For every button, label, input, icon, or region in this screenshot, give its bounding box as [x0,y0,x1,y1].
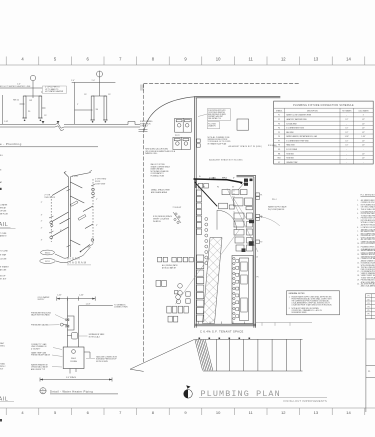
west wall fixture column lower [197,255,204,321]
dashed gas drop [233,190,235,230]
plan label left of schedule [268,145,277,147]
svg-text:1/2": 1/2" [345,145,348,147]
svg-text:R TRAP: R TRAP [0,254,7,257]
adjacent space labels [209,145,262,162]
svg-text:199 MBH: 199 MBH [70,361,78,363]
note leader [198,114,207,117]
svg-text:P2: P2 [368,299,370,301]
water supply valve note [268,206,287,211]
svg-text:OF USE: OF USE [0,211,7,213]
svg-text:P1: P1 [278,115,280,117]
svg-text:1-1/2": 1-1/2" [57,295,62,297]
svg-text:AND UNION TYP: AND UNION TYP [31,368,46,371]
ceiling line left section [0,88,66,92]
WH detail title [50,389,93,393]
svg-text:L WATER: L WATER [0,204,8,207]
svg-text:AT BUILD BAR BY: AT BUILD BAR BY [162,267,177,270]
bold gas line riser tail [195,179,197,188]
riser pipes left section [2,95,45,124]
svg-text:P2: P2 [278,119,280,121]
keyed notes title [361,194,375,196]
svg-text:GT: GT [232,187,234,189]
bar counter inner [240,258,249,321]
svg-text:1/2": 1/2" [345,140,348,142]
svg-text:C 6.4% S.F. TENANT SPACE: C 6.4% S.F. TENANT SPACE [200,329,244,333]
svg-text:1/2": 1/2" [362,158,365,160]
svg-text:HW 1/2: HW 1/2 [13,100,19,102]
accessible aisle hatch [195,340,213,371]
riser detail title [0,142,22,146]
svg-text:CONNECT: CONNECT [140,126,148,128]
svg-text:1/2: 1/2 [108,94,111,96]
dining note [162,264,178,270]
general notes box [287,291,340,315]
svg-text:12: 12 [281,410,286,415]
restroom fixture group 1 [175,118,192,132]
left edge dark mark [0,188,2,190]
svg-text:CW: CW [29,100,32,102]
svg-text:1/2": 1/2" [362,123,365,125]
svg-text:FCO: FCO [45,261,50,263]
svg-text:NG OF: NG OF [0,276,5,278]
svg-text:SUPPLY: SUPPLY [38,299,46,301]
svg-text:DESCRIPTION: DESCRIPTION [307,110,318,112]
wheel stops [199,338,251,340]
svg-text:e - Plumbing: e - Plumbing [0,142,22,146]
svg-text:TO CURB: TO CURB [0,251,8,253]
west-of-wall notes [140,121,176,178]
svg-text:HB2: HB2 [278,158,281,160]
svg-text:FINISH-OUT IMPROVEMENTS: FINISH-OUT IMPROVEMENTS [284,399,327,403]
svg-text:GRS L: GRS L [0,346,5,348]
svg-text:P4: P4 [368,307,370,309]
svg-text:FD-1 HUB: FD-1 HUB [208,123,215,125]
patio south line [256,323,312,326]
svg-text:WH-1: WH-1 [71,358,77,360]
storefront arc [144,97,196,131]
general notes item 1 [289,296,333,307]
svg-text:NOTE IN SIZE: NOTE IN SIZE [96,361,109,363]
riser diagram vent (left, dashed) [50,196,52,242]
svg-text:P4: P4 [217,187,219,189]
svg-text:ST. NOT: ST. NOT [0,279,6,281]
svg-text:1/2": 1/2" [345,132,348,134]
north symbol [184,390,193,399]
riser detail labels [0,80,111,123]
svg-text:P7: P7 [278,140,280,142]
svg-text:PRESS RELIEF VALVE: PRESS RELIEF VALVE [31,354,51,357]
svg-text:1-1/4": 1-1/4" [345,136,350,138]
svg-text:SYMBOL: SYMBOL [276,110,283,112]
svg-text:P5: P5 [257,277,259,279]
svg-text:WCO: WCO [45,253,51,255]
equipment row under gas line [198,183,247,194]
svg-text:P6: P6 [278,136,280,138]
svg-text:ADJACENT SPACE NOT IN (USE: ADJACENT SPACE NOT IN (USE) [229,145,262,148]
fixture schedule outer border [274,101,374,164]
bar stools [205,218,208,265]
small note box [207,122,219,129]
west wall fixture column upper [197,190,202,234]
svg-text:1/2": 1/2" [362,140,365,142]
riser tick fittings [67,171,93,248]
svg-text:S BE PLUMBING: S BE PLUMBING [140,121,153,123]
WH detail valves [66,319,69,328]
svg-text:11: 11 [249,57,254,62]
svg-text:1" BLD-UP: 1" BLD-UP [173,207,183,209]
svg-text:PLUMBING PLAN: PLUMBING PLAN [201,389,281,399]
leader diagonals [221,189,258,255]
svg-text:1-1/2: 1-1/2 [4,121,8,123]
bar north wall [237,175,256,177]
parking bottom line [203,370,303,372]
svg-text:P3: P3 [368,303,370,305]
riser diagram vent (right, dashed) [92,179,94,244]
riser branch lines [52,182,93,252]
svg-text:5'-0" SPACE: 5'-0" SPACE [66,376,77,379]
svg-text:P8: P8 [278,145,280,147]
floor line with break [0,123,140,130]
mini schedule right edge [366,294,375,319]
svg-text:HOSE BIB: HOSE BIB [286,153,294,155]
fixture schedule header [276,109,369,112]
dining tables row 3 [168,316,178,322]
corner mark [0,419,2,422]
tenant space label [200,329,244,333]
svg-text:13: 13 [314,410,319,415]
east wall [254,175,256,327]
svg-text:NOTE 20-A-3: NOTE 20-A-3 [89,336,100,339]
svg-text:1'-0": 1'-0" [92,80,96,82]
left edge fragments near WH detail [0,342,6,371]
svg-text:1-1/4": 1-1/4" [86,304,91,306]
svg-text:IE L: IE L [0,155,3,157]
boxed note block [207,109,230,121]
restroom label [175,135,180,137]
svg-text:P4: P4 [278,128,280,130]
dining tables row 2 [167,306,188,313]
east wall exterior fixtures [256,193,260,244]
bottom-left DETAIL title (clipped) [0,396,8,402]
svg-text:UTILITIES PRIOR TO ROUGH-IN: UTILITIES PRIOR TO ROUGH-IN [361,211,375,213]
gas terminal box [219,203,228,209]
svg-text:W/ ARCH: W/ ARCH [153,220,161,223]
riser pipe size labels [41,176,107,242]
svg-text:ME PLUM: ME PLUM [0,214,8,216]
WH detail supply risers [67,299,112,347]
title underline [199,397,327,399]
dark wall equipment [242,220,255,252]
svg-text:10: 10 [216,57,221,62]
WH detail cold water dim line [57,297,95,301]
riser bottom drain runs [55,247,91,263]
svg-text:1/2": 1/2" [362,128,365,130]
restroom fixture group 2 [173,137,190,149]
WH detail title bubble [40,388,46,394]
svg-text:1/2": 1/2" [362,132,365,134]
north wall [196,96,281,98]
svg-text:LD LINE: LD LINE [0,259,7,261]
svg-text:P7: P7 [203,187,205,189]
svg-text:1-1/4": 1-1/4" [79,295,84,297]
svg-text:GT: GT [278,162,280,164]
svg-text:HB: HB [278,153,280,155]
floor threshold bump [128,122,135,125]
gas line labels (dark) [199,176,235,179]
svg-text:IF EXISTING WTR HTR: IF EXISTING WTR HTR [208,110,226,112]
svg-text:PER CODE REQUIREMENTS: PER CODE REQUIREMENTS [361,269,375,271]
round tables [176,284,183,304]
svg-text:CONNECT HWS: CONNECT HWS [114,307,128,309]
grid bubble 1 [30,75,35,96]
bar area door diagonal [238,179,248,191]
CPVC note box [42,86,66,93]
fixture schedule rows [278,114,366,164]
svg-text:1/2": 1/2" [362,145,365,147]
expansion tank [72,333,78,340]
top ruler ticks [6,57,365,66]
svg-text:IN (CLOSET) ABOVE: IN (CLOSET) ABOVE [268,208,285,211]
curved leader to wall [260,217,280,226]
bar labels [257,256,259,279]
svg-text:1'-0": 1'-0" [17,84,21,86]
svg-text:AT: AT [0,181,2,184]
svg-text:1/2: 1/2 [84,94,87,96]
svg-text:CONT VENT: CONT VENT [95,183,106,185]
svg-text:PL 1 KEYED NOTES: PL 1 KEYED NOTES [361,194,375,196]
patio planting cluster [173,212,181,224]
floor arrows [42,121,60,124]
patio notes [151,188,182,223]
dining tables row 1 [158,257,194,262]
svg-text:P2: P2 [260,242,262,244]
svg-text:P1: P1 [260,195,262,197]
riser diagram title [67,257,87,265]
door swing arc [217,210,237,230]
svg-text:P5: P5 [368,310,370,312]
svg-text:R IN (USE): R IN (USE) [268,145,277,147]
svg-text:14: 14 [346,57,351,62]
bar back squares [236,260,239,318]
svg-text:GENERAL NOTES: GENERAL NOTES [289,292,306,295]
svg-text:HOT WATER HEATER: HOT WATER HEATER [45,90,64,93]
svg-text:10: 10 [216,410,221,415]
fixture schedule title [293,105,354,107]
riser diagram main stack [64,172,91,258]
dark equipment cluster [244,179,253,186]
drive diagonal [130,339,195,371]
svg-text:P6: P6 [368,314,370,316]
svg-text:2" VTR: 2" VTR [72,176,78,178]
bold gas diagonal [195,182,218,207]
svg-text:1'-0": 1'-0" [71,80,75,82]
svg-text:1/2": 1/2" [362,119,365,121]
south wall [195,324,256,326]
svg-text:13: 13 [314,57,319,62]
bold gas line horizontal [194,179,243,183]
svg-text:P6: P6 [28,111,30,113]
south wall ticks [199,322,245,325]
svg-text:P1.0: P1.0 [41,392,44,394]
WH detail leaders [47,315,95,368]
bar taps [233,257,235,319]
svg-text:P1: P1 [368,296,370,298]
svg-text:& VICINITY: & VICINITY [31,348,41,350]
bar inner equipment [241,262,247,312]
bottom ruler ticks [6,408,365,415]
parking stripes [216,339,300,371]
svg-text:THRU ROOF: THRU ROOF [44,197,56,199]
left edge DETAIL title (clipped) [0,222,8,228]
svg-text:SAMPLE CELL: SAMPLE CELL [145,152,157,155]
general notes item 2 [289,307,322,314]
svg-text:VERIFIED IN FIELD PRIOR: VERIFIED IN FIELD PRIOR [208,139,229,141]
water heater tank [63,347,84,369]
lease line left (dashed) [143,84,145,363]
svg-text:TO ROUGH-IN. GC TO COORD: TO ROUGH-IN. GC TO COORD [208,141,232,143]
fixture schedule grid [274,108,374,164]
tile walkway band [203,238,223,324]
lease line top (dashed) [144,83,300,85]
lease line ticks [139,85,148,132]
west wall [195,96,197,327]
keyed notes items [357,199,375,288]
WH detail text labels [31,295,128,371]
parking top line [195,338,303,340]
right margin rule [366,319,375,412]
svg-text:14: 14 [346,410,351,415]
svg-text:WH-1: WH-1 [222,177,228,179]
svg-text:PRESSURE GAUGE: PRESSURE GAUGE [31,323,49,326]
svg-text:Detail - Water Heater Pipi: Detail - Water Heater Piping [50,389,93,393]
bottom ruler numbers [21,410,351,415]
bottom ruler line [0,407,375,409]
equipment square [237,119,249,130]
note text block [208,136,232,146]
svg-text:AND SHADE AREA: AND SHADE AREA [151,191,168,194]
svg-text:P5: P5 [278,132,280,134]
riser label flags [71,201,87,220]
svg-text:ER HOT WATER HEATER LINE: ER HOT WATER HEATER LINE [0,85,31,88]
svg-text:PZL 4: PZL 4 [272,199,277,201]
FCO cleanout [40,259,56,264]
svg-text:AT LINE: AT LINE [0,269,7,272]
dining tables west [156,281,166,287]
svg-text:COPPER OR CPVC SCHEDULE 40: COPPER OR CPVC SCHEDULE 40 [361,202,375,204]
grid bubble 2 [97,71,103,96]
svg-text:ERS AT: ERS AT [0,207,6,210]
svg-text:PLUMBING VENTS THRU ROOF MIN: PLUMBING VENTS THRU ROOF MIN [361,247,375,249]
kitchen island boxes [234,198,253,251]
svg-text:P3: P3 [278,123,280,125]
svg-text:ANSI ST: ANSI ST [0,234,7,237]
wall-hung fixtures [197,139,201,147]
svg-text:2": 2" [233,177,235,179]
svg-text:E TRANSIT: E TRANSIT [0,266,9,269]
svg-text:12: 12 [281,57,286,62]
svg-text:ADJACENT SPACE NOT IN (USE: ADJACENT SPACE NOT IN (USE) [209,159,242,162]
ceiling line right section [72,81,116,83]
svg-text:1" GAS: 1" GAS [209,176,216,179]
svg-text:1/2": 1/2" [345,128,348,130]
svg-text:HOSE BIB: HOSE BIB [286,158,294,160]
tank outlet pipes [70,352,90,374]
bar counter outer [232,256,253,324]
svg-text:3/4: 3/4 [96,109,99,111]
general notes title [289,292,306,295]
WH detail bottom dim line [40,378,112,382]
top ruler line [0,64,375,66]
left edge clipped notes [0,155,9,281]
svg-text:SYSTEM RUN: SYSTEM RUN [140,123,151,125]
svg-text:1/2": 1/2" [345,119,348,121]
svg-text:1/2": 1/2" [362,153,365,155]
WCO cleanout [41,250,55,255]
riser pipes right section [75,82,108,124]
table cluster [175,291,191,304]
svg-text:1/2: 1/2 [44,115,47,117]
svg-text:1-1/4": 1-1/4" [361,136,366,138]
svg-text:PLUMBING FIXTURE CONNECTION: PLUMBING FIXTURE CONNECTION SCHEDULE [293,105,354,107]
svg-text:P1 P2: P1 P2 [175,135,180,137]
svg-text:VALVE WITH BY-PASS: VALVE WITH BY-PASS [31,314,50,317]
dining leader diagonal [175,259,208,305]
svg-text:AIL: AIL [0,222,8,228]
svg-text:DIAGRAM: DIAGRAM [67,260,87,264]
top ruler numbers [21,57,351,62]
